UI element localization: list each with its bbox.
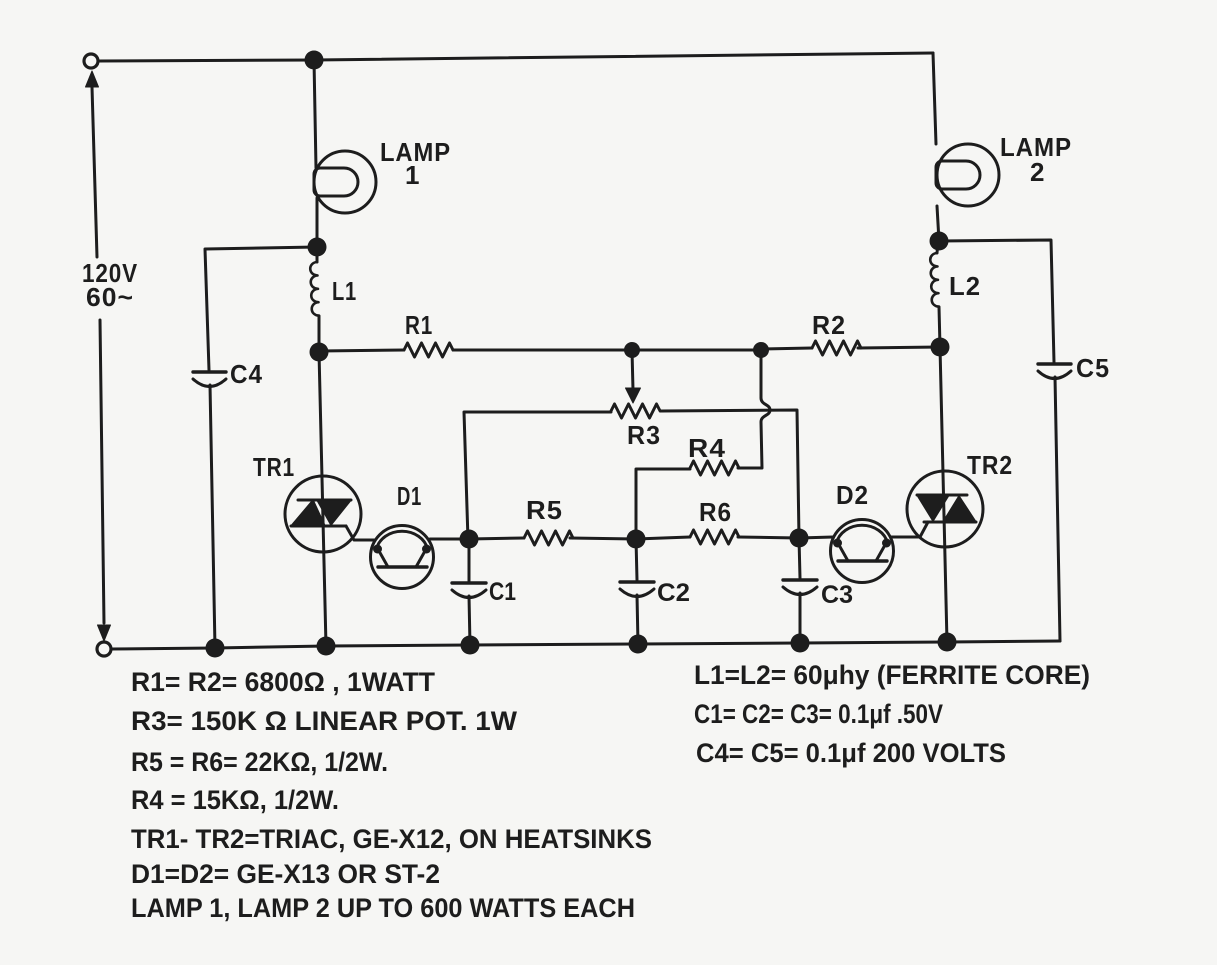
svg-text:R1: R1 <box>405 310 433 340</box>
svg-text:L1: L1 <box>332 276 357 306</box>
svg-text:TR2: TR2 <box>967 450 1013 480</box>
capacitor C2 <box>636 539 637 580</box>
svg-text:C1= C2= C3= 0.1μf .50V: C1= C2= C3= 0.1μf .50V <box>694 699 943 729</box>
svg-text:1: 1 <box>405 160 420 190</box>
node bottom C2 <box>629 635 648 654</box>
capacitor C1 <box>468 539 471 581</box>
wire lamp1 to junction <box>316 198 319 247</box>
wire D2 to TR2 <box>891 536 920 539</box>
node R5-R6 <box>627 530 646 549</box>
diac D1 <box>371 526 434 589</box>
arrow wiper down <box>626 388 641 403</box>
node bottom C1 <box>461 636 480 655</box>
triac TR2 <box>907 471 983 547</box>
inductor L1 <box>316 247 319 262</box>
svg-text:C4= C5= 0.1μf 200 VOLTS: C4= C5= 0.1μf 200 VOLTS <box>696 738 1006 768</box>
wire wiper junction to R2 junction <box>632 349 761 352</box>
svg-text:C5: C5 <box>1076 353 1110 383</box>
wire R3 wiper <box>632 350 633 390</box>
svg-text:R3: R3 <box>627 420 661 450</box>
capacitor C3 <box>799 538 800 578</box>
resistor R5 <box>524 531 573 545</box>
wire R1 rail <box>319 350 404 351</box>
wire R3 right leg <box>661 410 799 538</box>
wire lamp2 to junction <box>937 206 939 241</box>
node D1-R5 <box>460 530 479 549</box>
svg-text:R6: R6 <box>699 497 732 527</box>
svg-text:D1: D1 <box>397 481 422 511</box>
lamp LAMP2 <box>937 144 999 206</box>
wire R6 to C3 junction <box>738 537 799 538</box>
svg-text:TR1: TR1 <box>253 452 295 482</box>
terminal bottom-left <box>97 642 111 656</box>
node top lamp1 <box>305 51 324 70</box>
wire R5 to C2 junction <box>570 538 636 539</box>
svg-text:D1=D2= GE-X13 OR ST-2: D1=D2= GE-X13 OR ST-2 <box>131 859 440 889</box>
capacitor C5 <box>1038 362 1071 365</box>
svg-text:L2: L2 <box>949 271 981 301</box>
svg-text:60~: 60~ <box>86 282 134 312</box>
node lamp2 bottom <box>930 232 949 251</box>
node R2 left <box>753 342 769 358</box>
terminal top-left <box>84 54 98 68</box>
svg-text:R1= R2= 6800Ω , 1WATT: R1= R2= 6800Ω , 1WATT <box>131 667 435 697</box>
arrow down at source bottom <box>98 625 111 641</box>
wire top rail <box>98 53 933 61</box>
wire right drop to lamp2 <box>933 53 936 144</box>
node lamp1 bottom <box>308 238 327 257</box>
node R6-D2 <box>790 529 809 548</box>
svg-text:C4: C4 <box>230 359 263 389</box>
svg-text:L1=L2= 60μhy (FERRITE CORE): L1=L2= 60μhy (FERRITE CORE) <box>694 660 1090 690</box>
wire TR1 gate <box>346 526 374 540</box>
svg-text:R4 = 15KΩ, 1/2W.: R4 = 15KΩ, 1/2W. <box>131 785 339 815</box>
wire R4 right leg with hop <box>738 350 770 468</box>
resistor R2 <box>812 341 861 355</box>
wire C3 junction to D2 <box>799 537 833 538</box>
wire left rail upper <box>92 87 97 257</box>
svg-text:R5 = R6= 22KΩ, 1/2W.: R5 = R6= 22KΩ, 1/2W. <box>131 747 388 777</box>
wire TR2 gate <box>920 522 928 537</box>
wire R3 left leg <box>464 412 611 540</box>
resistor R1 <box>404 343 453 357</box>
wire TR2 drop <box>940 347 947 642</box>
svg-text:C2: C2 <box>657 579 690 607</box>
lamp LAMP1 <box>314 151 376 213</box>
arrow up at source top <box>86 71 99 87</box>
resistor R6 <box>690 530 739 544</box>
wire to R6 <box>636 537 690 539</box>
svg-text:R3= 150K Ω LINEAR POT. 1W: R3= 150K Ω LINEAR POT. 1W <box>131 706 518 736</box>
wire R4 left leg <box>636 469 690 539</box>
wire to R2 <box>761 348 812 349</box>
node bottom TR2 <box>938 633 957 652</box>
resistor R4 <box>690 461 739 475</box>
svg-text:R2: R2 <box>812 310 846 340</box>
svg-text:C1: C1 <box>489 578 516 606</box>
potentiometer R3 <box>611 404 660 418</box>
inductor L2 <box>937 241 938 253</box>
svg-text:C3: C3 <box>821 581 853 609</box>
node L1 bottom <box>310 343 329 362</box>
svg-text:R5: R5 <box>526 495 563 525</box>
node bottom TR1 <box>317 637 336 656</box>
svg-text:2: 2 <box>1030 157 1045 187</box>
node L2 bottom <box>931 338 950 357</box>
node bottom C4 <box>206 639 225 658</box>
wire C4 branch top <box>205 247 317 370</box>
wire C5 branch top <box>939 240 1054 362</box>
svg-text:R4: R4 <box>688 433 726 463</box>
wire R2 to L2 junction <box>858 347 940 348</box>
node wiper <box>624 342 640 358</box>
triac TR1 <box>285 476 361 552</box>
wire D1 to C1 junction <box>430 538 469 541</box>
diac D2 <box>831 520 894 583</box>
capacitor C4 <box>193 370 226 373</box>
wire left rail lower <box>100 320 104 623</box>
svg-text:D2: D2 <box>836 480 869 510</box>
wire bottom rail <box>111 641 1060 649</box>
wire lamp1 drop <box>314 60 316 168</box>
wire R1 to wiper junction <box>453 349 632 352</box>
node bottom C3 <box>791 634 810 653</box>
svg-text:LAMP 1, LAMP 2 UP TO 600 WATTS: LAMP 1, LAMP 2 UP TO 600 WATTS EACH <box>131 893 635 923</box>
svg-text:TR1- TR2=TRIAC, GE-X12, ON HEA: TR1- TR2=TRIAC, GE-X12, ON HEATSINKS <box>131 824 652 854</box>
wire to R5 <box>469 538 524 539</box>
